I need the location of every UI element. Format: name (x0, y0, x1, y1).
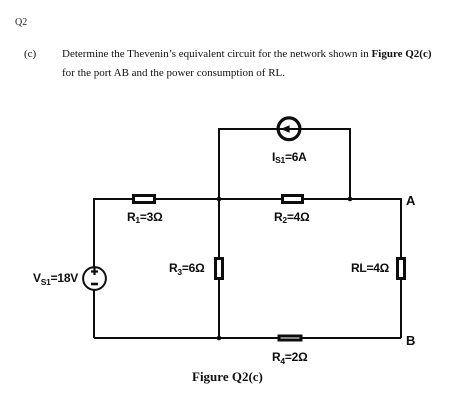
wire left vertical branch (93, 198, 95, 338)
resistor R2 box (283, 196, 303, 203)
resistor R1 box (134, 196, 155, 203)
wire top loop left vertical (218, 129, 220, 199)
item label (c) (24, 45, 36, 64)
resistor RL box (398, 259, 405, 279)
voltage source minus sign (91, 283, 98, 286)
label R3=6ohm (169, 261, 204, 275)
wire bottom horizontal (94, 337, 401, 339)
node B label (406, 333, 415, 348)
label VS1=18V (33, 271, 78, 285)
question text line 2 (62, 64, 285, 83)
wire middle vertical branch (R3) (218, 199, 220, 338)
wire top loop right vertical (349, 129, 351, 199)
label RL=4ohm (351, 261, 389, 275)
question text line 1 (62, 45, 432, 64)
junction dot at bottom middle node (217, 336, 222, 341)
label R2=4ohm (274, 210, 309, 224)
voltage source plus sign (91, 268, 98, 275)
resistor R4 box (279, 336, 301, 340)
figure caption (192, 369, 263, 385)
label IS1=6A (272, 150, 307, 164)
label R1=3ohm (127, 210, 162, 224)
junction dot at R2/top-loop node (348, 197, 353, 202)
wire middle horizontal (left node to node A) (94, 198, 401, 200)
label R4=2ohm (272, 350, 307, 364)
wire top loop horizontal (218, 128, 351, 130)
question number Q2 (15, 17, 27, 28)
current source IS1 circle (278, 118, 300, 140)
node A label (406, 193, 415, 208)
wire right vertical branch (RL, A to B) (400, 198, 402, 338)
voltage source VS1 circle (83, 267, 106, 290)
resistor R3 box (216, 259, 223, 279)
junction dot at middle cross node (217, 197, 222, 202)
current source arrow head (281, 125, 290, 132)
